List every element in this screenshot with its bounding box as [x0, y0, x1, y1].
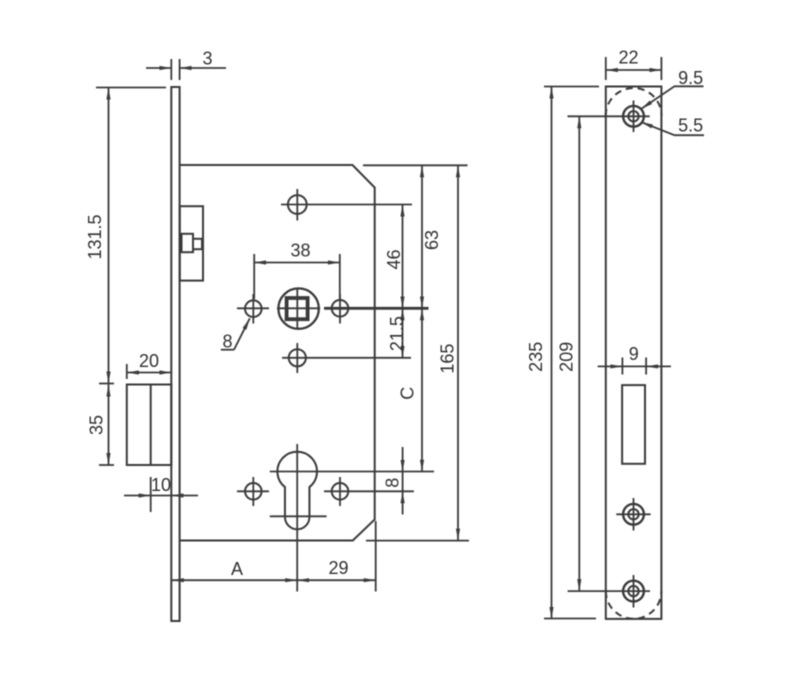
svg-text:165: 165: [438, 344, 458, 374]
dimension 46: [402, 205, 404, 309]
top hole: [288, 195, 307, 214]
svg-text:46: 46: [384, 249, 404, 269]
bottom-right hole: [332, 483, 349, 500]
svg-text:63: 63: [422, 230, 442, 250]
right hole of spindle row: [332, 300, 349, 317]
bottom dimension extension lines: [375, 521, 377, 592]
svg-text:209: 209: [557, 342, 577, 372]
dimension 35 deadbolt height: [99, 385, 114, 466]
svg-text:3: 3: [202, 49, 212, 69]
bottom screw hole: [623, 581, 644, 602]
dimension 165: [457, 165, 459, 540]
faceplate front view: [606, 87, 662, 619]
latch slot: [622, 385, 645, 464]
dimension A: [172, 579, 297, 581]
dimension 9: [598, 358, 671, 375]
dimension 21.5: [402, 308, 404, 358]
dimension 20 deadbolt: [127, 364, 172, 379]
center lines spindle row: [237, 288, 340, 329]
spindle hub circle: [278, 288, 318, 328]
svg-text:5.5: 5.5: [678, 116, 703, 136]
svg-text:35: 35: [87, 415, 107, 435]
leader 9.5: [641, 86, 704, 109]
faceplate side view: [171, 87, 179, 621]
cylinder center lines: [270, 444, 434, 592]
middle screw hole: [623, 504, 644, 525]
dimension 235: [544, 87, 599, 619]
svg-text:131.5: 131.5: [85, 214, 105, 259]
svg-text:29: 29: [328, 558, 348, 578]
leader 8 to left hole: [221, 318, 250, 349]
svg-text:8: 8: [222, 332, 232, 352]
top screw hole: [623, 106, 644, 127]
svg-text:C: C: [398, 387, 418, 400]
dimension 22: [606, 57, 662, 80]
dimension C: [421, 308, 423, 471]
dimension 38: [254, 254, 340, 301]
dimension 10: [124, 477, 198, 512]
svg-text:38: 38: [290, 241, 310, 261]
leader 5.5: [641, 122, 704, 135]
left hole of spindle row: [245, 300, 262, 317]
top extension line right: [363, 164, 468, 166]
svg-text:22: 22: [618, 48, 638, 68]
heavy center line to right: [324, 307, 429, 310]
latch block: [180, 206, 203, 280]
deadbolt: [127, 385, 172, 466]
svg-text:A: A: [231, 559, 243, 579]
dimension 209: [568, 116, 650, 591]
dimension 8 right: [402, 447, 404, 515]
latch tab: [193, 239, 202, 249]
dimension 131.5: [96, 88, 166, 384]
svg-text:235: 235: [526, 342, 546, 372]
bottom extension line right: [366, 540, 469, 542]
lower hole: [289, 349, 306, 366]
svg-text:10: 10: [151, 475, 171, 495]
svg-text:21.5: 21.5: [387, 316, 407, 351]
dimension 29: [297, 579, 376, 581]
dimension 63: [421, 165, 423, 308]
dashed rounded bottom: [606, 591, 662, 619]
svg-text:9.5: 9.5: [678, 68, 703, 88]
dimension 3 faceplate thickness: [146, 59, 226, 80]
latch tail rect: [182, 234, 194, 252]
dashed rounded top: [606, 88, 662, 116]
lock body outline: [180, 165, 375, 541]
svg-text:9: 9: [629, 344, 639, 364]
spindle square hole: [287, 298, 308, 319]
svg-text:8: 8: [383, 478, 403, 488]
svg-text:20: 20: [139, 351, 159, 371]
bottom-left hole: [245, 483, 262, 500]
euro cylinder hole: [277, 452, 317, 530]
